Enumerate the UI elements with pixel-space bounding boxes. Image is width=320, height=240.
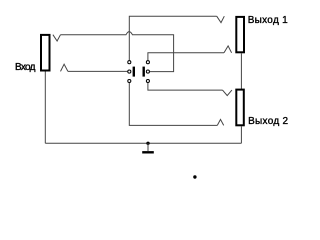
switch SA1 left pole movable bar (133, 67, 135, 77)
contact: sleeve spring of Выход 1 (224, 46, 232, 53)
wire: X1 tip to switch SA1 right pole common (with hop over vertical wire) (61, 32, 174, 72)
svg-text:Вход: Вход (15, 62, 36, 73)
switch SA1 right pole movable bar (143, 67, 145, 77)
wire: X1 body to ground bus (44, 72, 46, 144)
wire: Выход 2 body to ground bus (240, 126, 242, 143)
contact: tip spring of Выход 1 (217, 16, 225, 22)
switch SA1 right pole common contact (146, 70, 149, 73)
switch SA1 right pole bottom contact (146, 79, 149, 82)
label Выход 2 (248, 116, 288, 127)
wire: switch right pole top contact to Выход 1 sleeve (148, 53, 224, 61)
switch SA1 left pole top contact (128, 61, 131, 64)
ground symbol (142, 143, 154, 152)
contact: sleeve spring of Выход 2 (217, 119, 223, 125)
connector jack body (Выход 1) (236, 17, 244, 52)
junction dot on ground bus (146, 142, 149, 145)
label Вход (15, 62, 36, 73)
dot (page marker) (193, 175, 196, 178)
contact: tip spring of X1 (53, 35, 61, 41)
wire: X1 sleeve spring to switch SA1 left pole common (68, 70, 128, 72)
switch SA1 left pole common contact (128, 70, 131, 73)
wire: Выход 1 body to Выход 2 body (240, 53, 242, 89)
contact: tip spring of Выход 2 (223, 90, 232, 96)
wire: switch left pole bottom contact to Выход 2 sleeve (129, 83, 217, 126)
label Выход 1 (248, 15, 288, 26)
switch SA1 left pole bottom contact (128, 79, 131, 82)
connector jack body (Выход 2) (236, 90, 244, 126)
wire: switch left pole top contact to Выход 1 tip (129, 16, 216, 60)
wire: ground bus (45, 142, 241, 144)
wire: switch right pole bottom contact to Выход 2 tip (148, 83, 223, 90)
svg-text:Выход 2: Выход 2 (248, 116, 288, 127)
switch SA1 right pole top contact (146, 61, 149, 64)
svg-text:Выход 1: Выход 1 (248, 15, 288, 26)
connector X1 jack body (Вход) (41, 35, 50, 71)
contact: sleeve spring of X1 (61, 64, 68, 71)
